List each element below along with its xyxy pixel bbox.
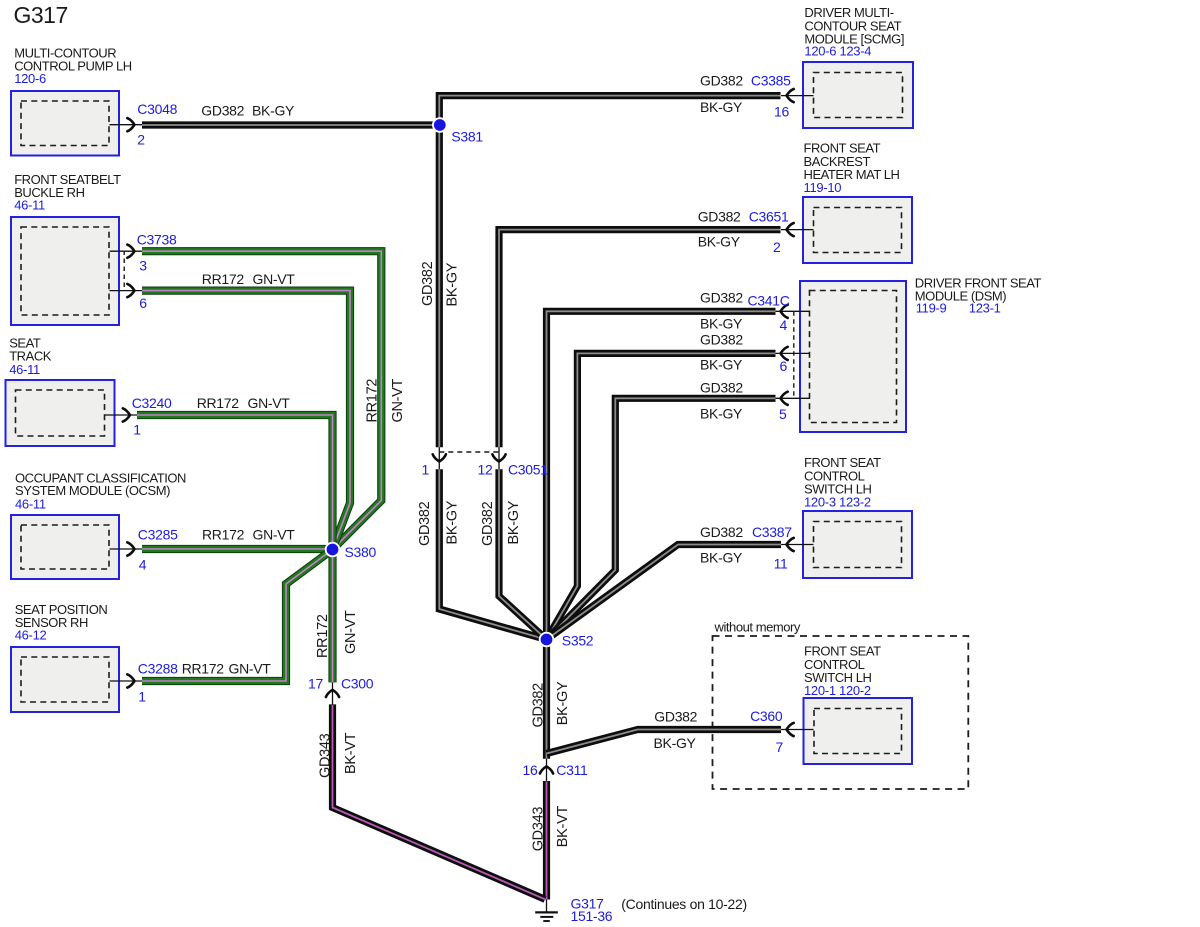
svg-text:GD382: GD382 bbox=[698, 209, 741, 225]
svg-text:120-1 120-2: 120-1 120-2 bbox=[804, 683, 871, 698]
svg-text:4: 4 bbox=[139, 557, 147, 573]
svg-text:6: 6 bbox=[780, 358, 788, 374]
svg-text:BK-GY: BK-GY bbox=[252, 103, 295, 119]
svg-text:GD382: GD382 bbox=[201, 103, 244, 119]
svg-text:BK-GY: BK-GY bbox=[698, 234, 741, 250]
svg-text:BK-GY: BK-GY bbox=[654, 735, 697, 751]
svg-text:2: 2 bbox=[137, 132, 145, 148]
svg-text:C3048: C3048 bbox=[137, 101, 177, 117]
svg-text:GD382: GD382 bbox=[700, 290, 743, 306]
svg-text:GD382: GD382 bbox=[654, 709, 697, 725]
svg-text:S380: S380 bbox=[345, 544, 377, 560]
svg-text:119-9: 119-9 bbox=[916, 301, 947, 316]
svg-text:GN-VT: GN-VT bbox=[390, 378, 406, 422]
svg-text:BK-GY: BK-GY bbox=[700, 316, 743, 332]
svg-text:GN-VT: GN-VT bbox=[253, 527, 296, 543]
svg-text:123-1: 123-1 bbox=[969, 301, 1001, 316]
svg-text:GD382: GD382 bbox=[700, 380, 743, 396]
svg-text:1: 1 bbox=[138, 689, 146, 705]
svg-text:5: 5 bbox=[779, 406, 787, 422]
svg-text:120-6 123-4: 120-6 123-4 bbox=[804, 44, 871, 59]
svg-text:17: 17 bbox=[308, 676, 323, 692]
svg-text:GN-VT: GN-VT bbox=[229, 661, 272, 677]
svg-text:C360: C360 bbox=[750, 708, 783, 724]
svg-text:BK-GY: BK-GY bbox=[700, 99, 743, 115]
svg-text:46-11: 46-11 bbox=[15, 497, 46, 512]
svg-text:BK-GY: BK-GY bbox=[700, 550, 743, 566]
svg-text:C3385: C3385 bbox=[751, 73, 791, 89]
svg-text:119-10: 119-10 bbox=[804, 180, 842, 195]
svg-text:GD382: GD382 bbox=[700, 332, 743, 348]
svg-text:GD382: GD382 bbox=[700, 524, 743, 540]
svg-text:120-6: 120-6 bbox=[14, 71, 46, 86]
svg-text:120-3 123-2: 120-3 123-2 bbox=[804, 495, 871, 510]
svg-text:16: 16 bbox=[774, 104, 789, 120]
svg-text:C300: C300 bbox=[341, 676, 374, 692]
svg-text:C3240: C3240 bbox=[132, 395, 172, 411]
svg-text:2: 2 bbox=[773, 239, 781, 255]
svg-text:(Continues on 10-22): (Continues on 10-22) bbox=[621, 896, 747, 912]
svg-text:C3738: C3738 bbox=[137, 232, 177, 248]
svg-text:RR172: RR172 bbox=[197, 395, 240, 411]
svg-text:1: 1 bbox=[422, 462, 430, 478]
svg-text:C341C: C341C bbox=[748, 293, 790, 309]
svg-text:RR172: RR172 bbox=[182, 661, 225, 677]
svg-text:6: 6 bbox=[139, 295, 147, 311]
svg-text:7: 7 bbox=[776, 739, 784, 755]
svg-text:C3051: C3051 bbox=[508, 462, 548, 478]
svg-text:GD382: GD382 bbox=[700, 73, 743, 89]
svg-text:BK-VT: BK-VT bbox=[555, 806, 571, 848]
svg-text:C3651: C3651 bbox=[749, 209, 789, 225]
svg-text:BK-GY: BK-GY bbox=[445, 500, 461, 544]
svg-text:BK-GY: BK-GY bbox=[555, 681, 571, 725]
svg-text:S381: S381 bbox=[451, 129, 483, 145]
svg-text:RR172: RR172 bbox=[364, 379, 380, 423]
svg-text:C3285: C3285 bbox=[138, 527, 178, 543]
svg-text:46-11: 46-11 bbox=[14, 198, 45, 213]
svg-text:BK-GY: BK-GY bbox=[700, 357, 743, 373]
svg-text:GN-VT: GN-VT bbox=[343, 610, 359, 654]
svg-text:GD382: GD382 bbox=[417, 501, 433, 546]
svg-text:GN-VT: GN-VT bbox=[253, 271, 296, 287]
svg-text:without memory: without memory bbox=[714, 620, 801, 635]
svg-text:BK-VT: BK-VT bbox=[343, 732, 359, 774]
svg-text:46-12: 46-12 bbox=[15, 628, 47, 643]
svg-text:BK-GY: BK-GY bbox=[444, 262, 460, 306]
svg-text:GD343: GD343 bbox=[317, 733, 333, 778]
svg-text:C3387: C3387 bbox=[752, 524, 792, 540]
svg-text:BK-GY: BK-GY bbox=[506, 500, 522, 544]
svg-text:11: 11 bbox=[774, 556, 788, 572]
svg-text:16: 16 bbox=[523, 762, 538, 778]
svg-text:C311: C311 bbox=[556, 762, 588, 778]
svg-text:4: 4 bbox=[780, 317, 788, 333]
svg-text:12: 12 bbox=[478, 462, 493, 478]
svg-text:G317: G317 bbox=[14, 2, 68, 28]
svg-text:1: 1 bbox=[133, 422, 141, 438]
svg-text:3: 3 bbox=[139, 258, 147, 274]
svg-text:GN-VT: GN-VT bbox=[248, 395, 291, 411]
svg-text:GD343: GD343 bbox=[531, 807, 547, 852]
svg-text:BK-GY: BK-GY bbox=[700, 406, 743, 422]
svg-text:RR172: RR172 bbox=[202, 527, 245, 543]
svg-text:RR172: RR172 bbox=[315, 614, 331, 658]
svg-text:RR172: RR172 bbox=[202, 271, 245, 287]
svg-text:151-36: 151-36 bbox=[571, 908, 613, 924]
svg-text:GD382: GD382 bbox=[480, 501, 496, 546]
svg-text:GD382: GD382 bbox=[420, 261, 436, 306]
svg-text:S352: S352 bbox=[562, 633, 594, 649]
svg-text:GD382: GD382 bbox=[531, 683, 547, 728]
svg-text:C3288: C3288 bbox=[138, 661, 178, 677]
svg-text:46-11: 46-11 bbox=[9, 362, 40, 377]
